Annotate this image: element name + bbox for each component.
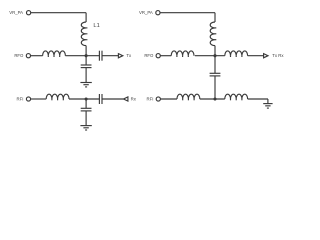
svg-text:Tx Rx: Tx Rx bbox=[272, 53, 284, 58]
svg-text:RFI: RFI bbox=[16, 97, 23, 102]
svg-text:VR_PA: VR_PA bbox=[139, 10, 153, 15]
svg-text:Tx: Tx bbox=[126, 53, 132, 58]
svg-text:Rx: Rx bbox=[131, 97, 137, 102]
svg-text:RFO: RFO bbox=[144, 53, 154, 58]
svg-text:L1: L1 bbox=[93, 23, 99, 29]
svg-text:RFO: RFO bbox=[14, 53, 24, 58]
svg-text:VR_PA: VR_PA bbox=[9, 10, 23, 15]
svg-text:RFI: RFI bbox=[146, 97, 153, 102]
